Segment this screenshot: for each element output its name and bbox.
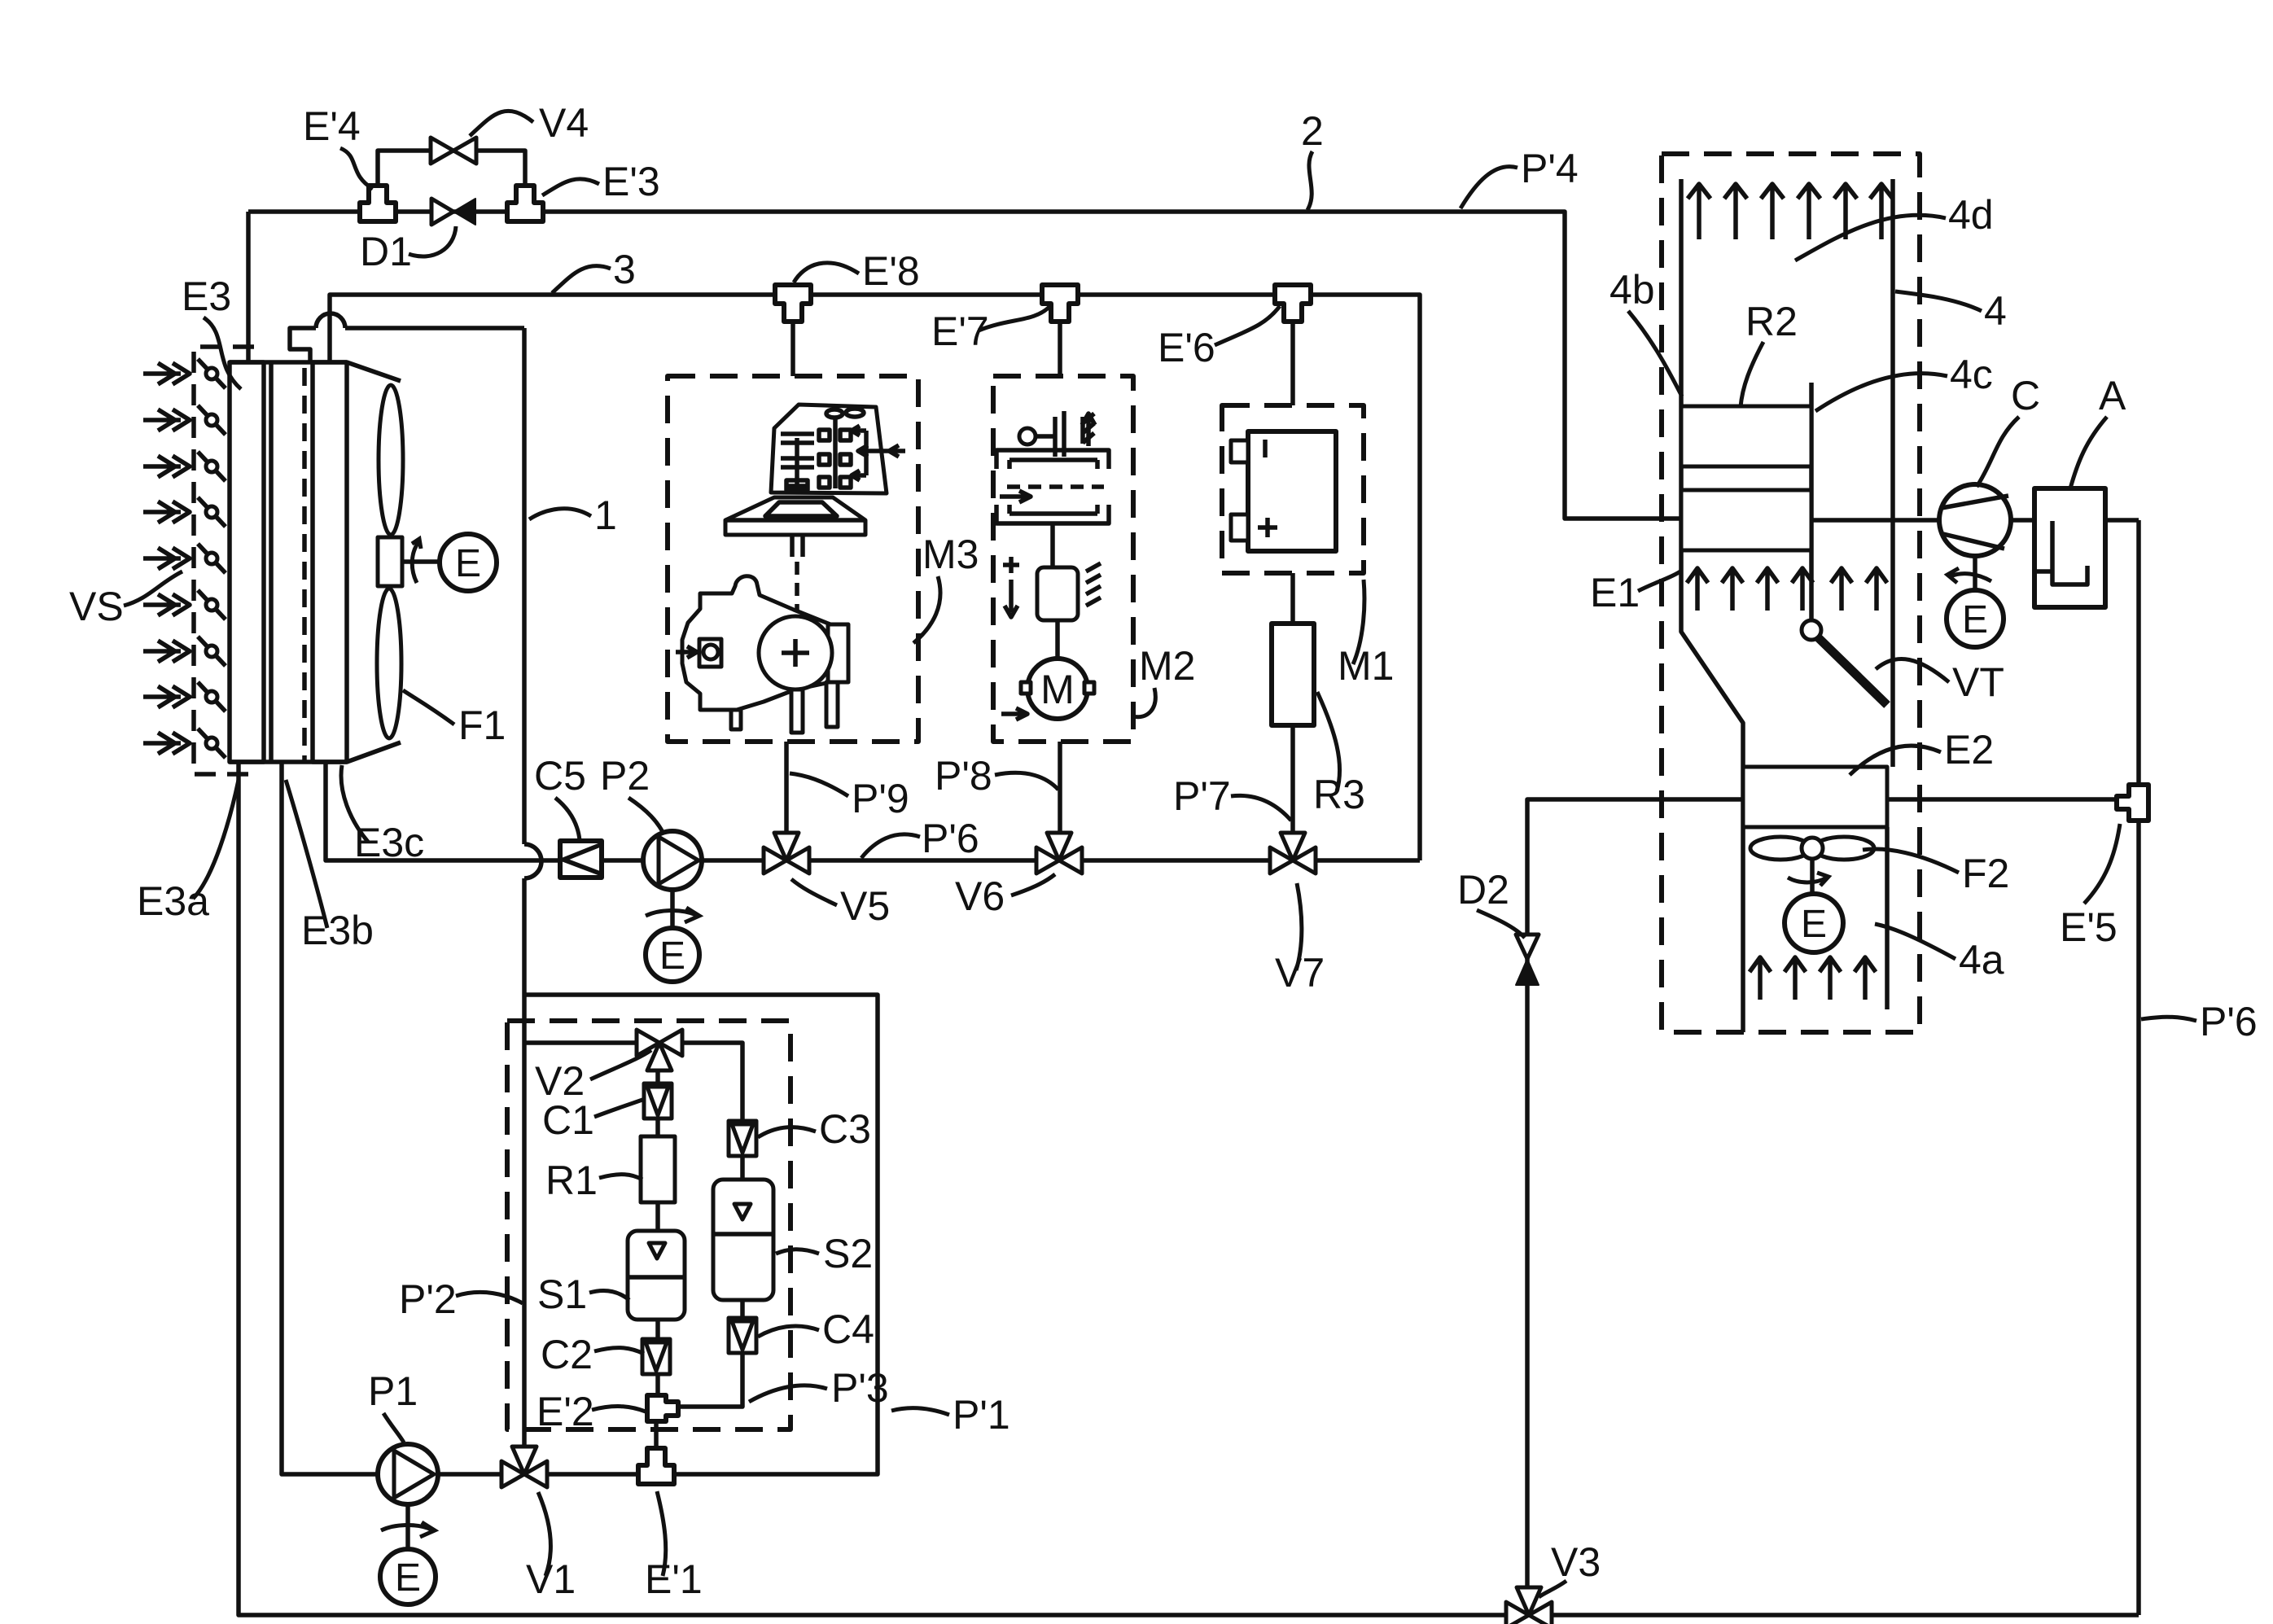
check valve C4	[729, 1318, 756, 1353]
wire V2 bottom branch through C1 R1 S1 C2 to E'2	[655, 1070, 660, 1395]
motor E of compressor	[1947, 590, 2004, 647]
label F1	[403, 690, 506, 748]
wire M2 bottom pipe to V6	[1058, 742, 1062, 860]
svg-text:4c: 4c	[1950, 352, 1993, 397]
wire M3 bottom pipe to V5	[784, 742, 789, 860]
E3 header bottom edge	[230, 759, 347, 764]
label M3	[913, 532, 979, 643]
svg-text:M: M	[1040, 667, 1075, 712]
wire R3 to V7	[1290, 725, 1295, 860]
actuator cylinder of M2	[1003, 525, 1101, 659]
motor E of pump P2	[646, 928, 699, 982]
wire V2 left branch	[524, 1040, 637, 1045]
label VT	[1876, 659, 2004, 705]
label D1	[360, 226, 456, 274]
pump P2 motor shaft	[670, 890, 675, 928]
label E'6	[1158, 306, 1280, 370]
svg-text:D1: D1	[360, 229, 412, 274]
tee fitting E'2	[647, 1395, 678, 1421]
svg-text:3: 3	[613, 247, 636, 292]
svg-text:P'3: P'3	[831, 1365, 889, 1411]
wire long vertical branch lower part	[522, 878, 527, 1461]
svg-text:E: E	[1962, 598, 1988, 641]
clutch actuator of M2	[1019, 411, 1095, 457]
wire bypass loop with V4	[378, 151, 525, 203]
pump P1	[378, 1444, 438, 1504]
wire outer loop left side and bottom	[239, 762, 2139, 1615]
pump P1 motor shaft	[405, 1504, 410, 1549]
label E'3	[542, 159, 660, 204]
svg-text:E'5: E'5	[2060, 904, 2118, 950]
dashed enclosure of battery M1	[1222, 405, 1364, 573]
label A	[2070, 373, 2126, 488]
accumulator S2	[713, 1180, 773, 1300]
compressor C	[1939, 484, 2011, 556]
label C4	[758, 1307, 874, 1352]
wire circuit 1 top run from E3b with hump over E3c pipe	[290, 328, 316, 362]
tee fitting E'6	[1275, 285, 1311, 322]
label 4	[1895, 288, 2007, 334]
wire circuit 1 loop P1 line and right riser	[282, 762, 878, 1474]
check valve D1	[431, 199, 475, 225]
label 4c	[1815, 352, 1993, 411]
label S1	[537, 1272, 629, 1317]
wire circuit 2 top line from E3 to HVAC	[248, 212, 1681, 519]
svg-text:E: E	[455, 542, 481, 585]
casing slant bottom right	[347, 742, 401, 762]
wire M1 to R3	[1290, 573, 1295, 624]
label 1	[529, 492, 617, 538]
svg-text:M1: M1	[1338, 643, 1394, 689]
motor E of fan F2	[1785, 894, 1843, 952]
wire main middle line E3c to C5 P2 V5 V6 V7	[326, 762, 1420, 860]
engine block of M3	[676, 576, 848, 733]
label E3b	[286, 780, 374, 953]
svg-text:P'1: P'1	[953, 1392, 1010, 1438]
label E'4	[303, 103, 373, 189]
svg-text:F1: F1	[458, 703, 506, 748]
svg-text:4: 4	[1984, 288, 2007, 334]
svg-text:P'4: P'4	[1521, 146, 1579, 191]
svg-text:E'8: E'8	[862, 248, 920, 294]
svg-text:P'6: P'6	[2200, 999, 2258, 1044]
fan F1 upper blade	[379, 385, 403, 535]
svg-text:S2: S2	[823, 1231, 873, 1276]
air arrows bottom inlet 4a	[1750, 957, 1876, 1000]
svg-text:P'6: P'6	[922, 816, 979, 861]
pump P1 rotation arrow	[381, 1522, 435, 1537]
tee fitting E'7	[1042, 285, 1078, 322]
dashed frame around solar collector E3	[194, 347, 254, 774]
fan F2 right blade	[1814, 837, 1874, 860]
louver flaps with pivots	[198, 359, 226, 758]
svg-text:4a: 4a	[1959, 937, 2004, 983]
svg-text:E3a: E3a	[137, 878, 209, 924]
wire pipe from circuit 2 down to E3 top	[246, 212, 251, 362]
label C3	[758, 1106, 871, 1152]
svg-text:F2: F2	[1962, 851, 2009, 896]
three-way valve V3	[1506, 1587, 1552, 1624]
svg-text:E'3: E'3	[602, 159, 660, 204]
accumulator S1	[628, 1231, 685, 1320]
pump P2 rotation arrow	[646, 908, 699, 922]
svg-text:E'6: E'6	[1158, 325, 1215, 370]
svg-text:E1: E1	[1590, 570, 1640, 615]
electric motor M of M2	[1001, 659, 1094, 720]
dashed enclosure of storage module P'1	[507, 1021, 791, 1429]
label E'1	[645, 1491, 703, 1602]
fan F1 hub	[378, 537, 402, 586]
clutch bell base of M3	[725, 497, 865, 557]
label E'2	[536, 1389, 646, 1434]
label V1	[526, 1492, 576, 1602]
label E3c	[341, 765, 424, 865]
check valve D2	[1516, 935, 1539, 985]
label 4b	[1609, 267, 1682, 396]
wire compressor to accumulator A	[2011, 518, 2034, 523]
label C5	[534, 753, 586, 840]
label E'8	[794, 248, 920, 294]
flap valve VT pivot	[1802, 620, 1821, 640]
filter C5	[560, 841, 602, 878]
label E'5	[2060, 824, 2120, 950]
svg-text:2: 2	[1301, 108, 1324, 154]
pump P2	[643, 831, 702, 890]
label F2	[1863, 849, 2009, 896]
label E'7	[931, 306, 1050, 354]
svg-text:VT: VT	[1952, 659, 2004, 705]
duct right wall	[1890, 179, 1895, 767]
check valve C1	[644, 1083, 672, 1118]
wire E1 outlet to compressor	[1811, 518, 1939, 523]
duct middle wall 4c divider	[1809, 383, 1814, 620]
svg-text:E2: E2	[1944, 727, 1994, 773]
E3 header top edge	[230, 360, 347, 365]
casing slant top right	[347, 362, 401, 381]
heat exchanger inner wall line	[269, 362, 274, 762]
compressor motor shaft	[1973, 556, 1977, 590]
wire accumulator outlet riser P'6	[2136, 520, 2141, 1615]
three-way valve V7	[1270, 833, 1316, 873]
svg-text:R1: R1	[545, 1158, 598, 1203]
label 2	[1301, 108, 1324, 210]
fan F1 lower blade	[377, 589, 401, 738]
label C1	[542, 1097, 645, 1143]
driveline axis dashes	[795, 562, 799, 615]
label P'9	[790, 773, 909, 821]
svg-text:V3: V3	[1551, 1539, 1601, 1585]
label 4d	[1795, 192, 1994, 260]
label P'6	[861, 816, 979, 861]
label E3	[182, 274, 241, 389]
label D2	[1457, 867, 1525, 938]
resistor R3	[1272, 624, 1314, 725]
wire circuit 3 line with corner down to valve line	[330, 295, 1420, 860]
wire E2 right pipe to tee E'5	[1887, 797, 2128, 802]
duct left wall with taper	[1681, 179, 1743, 1032]
clutch plates of M2	[996, 450, 1109, 523]
wire long vertical branch to V1 with hop over pump line	[522, 328, 527, 844]
wire E2 left pipe with D2 branch	[1527, 799, 1743, 1615]
label V6	[955, 873, 1055, 919]
svg-text:E'4: E'4	[303, 103, 361, 149]
svg-text:E'2: E'2	[536, 1389, 594, 1434]
label V4	[470, 100, 589, 146]
duct lower right wall	[1885, 827, 1890, 1009]
svg-text:E: E	[395, 1556, 421, 1600]
svg-text:P'9: P'9	[852, 776, 909, 821]
fan F2 left blade	[1750, 837, 1811, 860]
label E3a	[137, 780, 239, 924]
gearbox housing of M3	[771, 405, 905, 493]
wire hop bridge over pump line	[524, 844, 541, 878]
label P'7	[1173, 773, 1291, 821]
tee fitting E'4	[360, 186, 396, 221]
flap valve VT blade	[1818, 637, 1887, 705]
svg-text:A: A	[2099, 373, 2126, 418]
svg-text:P1: P1	[368, 1368, 418, 1414]
tank R1	[641, 1136, 675, 1202]
label VS	[69, 571, 182, 629]
wire hump bridge	[316, 313, 345, 328]
motor E of fan F1	[440, 534, 497, 591]
label R3	[1313, 692, 1365, 817]
svg-text:VS: VS	[69, 584, 124, 629]
valve V4	[431, 138, 476, 164]
label V7	[1275, 883, 1325, 996]
svg-text:P2: P2	[600, 753, 650, 799]
label P'6 right	[2141, 999, 2258, 1044]
svg-text:R2: R2	[1745, 299, 1798, 344]
label S2	[776, 1231, 873, 1276]
label M1	[1338, 580, 1394, 689]
svg-text:M2: M2	[1139, 643, 1195, 689]
check valve C3	[729, 1121, 756, 1156]
svg-text:C: C	[2011, 373, 2040, 418]
label R2	[1741, 299, 1798, 407]
svg-text:P'8: P'8	[935, 753, 992, 799]
wire circuit 1 top run continuation	[345, 326, 524, 330]
label 3	[552, 247, 636, 293]
wire accumulator A outlet	[2105, 518, 2139, 523]
battery of M1	[1231, 431, 1336, 551]
dashed enclosure of HVAC unit 4	[1662, 154, 1920, 1032]
sun ray arrows VS	[143, 363, 190, 754]
motor E of pump P1	[380, 1549, 436, 1604]
fan F2 shaft	[1810, 859, 1815, 894]
label P'3	[749, 1365, 889, 1411]
tee fitting E'8	[775, 285, 811, 322]
svg-text:C1: C1	[542, 1097, 594, 1143]
fan F2 rotation arrow	[1788, 873, 1828, 886]
evaporator E2	[1743, 767, 1887, 827]
svg-text:P'7: P'7	[1173, 773, 1231, 819]
svg-text:M3: M3	[922, 532, 979, 577]
svg-text:4d: 4d	[1948, 192, 1994, 238]
label C	[1977, 373, 2040, 487]
label E2	[1850, 727, 1994, 775]
label C2	[541, 1332, 644, 1377]
heat exchanger rear slab	[313, 362, 347, 762]
svg-text:E: E	[659, 935, 685, 978]
svg-text:V5: V5	[840, 883, 890, 929]
label E1	[1590, 570, 1680, 615]
wire M3 top stub from tee E'8	[791, 320, 795, 376]
label P'1	[891, 1392, 1010, 1438]
svg-text:E: E	[1801, 903, 1827, 946]
fan F1 rotation arrow	[412, 539, 421, 583]
tee fitting E'3	[507, 186, 543, 221]
label 4a	[1875, 924, 2004, 983]
wire E'2 down to E'1	[654, 1421, 659, 1465]
fan F2 hub	[1802, 838, 1823, 859]
three-way valve V6	[1036, 833, 1082, 873]
svg-text:E3b: E3b	[301, 908, 374, 953]
svg-text:V4: V4	[539, 100, 589, 146]
evaporator E1	[1681, 490, 1811, 550]
label P'8	[935, 753, 1058, 799]
heater radiator R2	[1681, 406, 1811, 466]
wire V2 right branch down through C3 S2 C4 to E'2	[678, 1043, 742, 1407]
label P'4	[1461, 146, 1579, 208]
svg-text:S1: S1	[537, 1272, 587, 1317]
label R1	[545, 1158, 642, 1203]
three-way valve V5	[764, 833, 809, 873]
wire M1 top stub from tee E'6	[1290, 320, 1295, 405]
svg-text:C3: C3	[819, 1106, 871, 1152]
heat exchanger E3a front slab	[230, 362, 264, 762]
label V2	[535, 1050, 651, 1104]
svg-text:E3c: E3c	[354, 820, 424, 865]
air arrows below E1	[1687, 568, 1887, 611]
svg-text:C4: C4	[822, 1307, 874, 1352]
dashed enclosure of engine unit M3	[668, 376, 918, 742]
label M2	[1133, 643, 1195, 717]
three-way valve V2	[637, 1030, 682, 1070]
svg-text:C5: C5	[534, 753, 586, 799]
accumulator A	[2034, 488, 2105, 607]
three-way valve V1	[501, 1447, 547, 1487]
compressor rotation arrow	[1947, 568, 1991, 583]
fan F1 shaft	[402, 559, 440, 564]
svg-text:E3: E3	[182, 274, 231, 319]
check valve C2	[642, 1339, 670, 1374]
svg-text:V6: V6	[955, 873, 1005, 919]
svg-text:E'1: E'1	[645, 1556, 703, 1602]
svg-text:D2: D2	[1457, 867, 1509, 913]
wire M2 top stub from tee E'7	[1058, 320, 1062, 376]
label V3	[1539, 1539, 1601, 1597]
heat exchanger E3b dashed middle layer	[302, 368, 307, 762]
label V5	[791, 879, 890, 929]
air arrows top outlet 4d	[1688, 184, 1893, 239]
tee fitting E'5	[2117, 785, 2148, 821]
label P2	[600, 753, 664, 834]
dashed enclosure of electric drive M2	[993, 376, 1133, 742]
svg-text:P'2: P'2	[399, 1276, 457, 1322]
label P'2	[399, 1276, 523, 1322]
label P1	[368, 1368, 418, 1442]
svg-text:4b: 4b	[1609, 267, 1655, 313]
svg-text:1: 1	[594, 492, 617, 538]
svg-text:C2: C2	[541, 1332, 593, 1377]
tee fitting E'1	[638, 1448, 674, 1484]
